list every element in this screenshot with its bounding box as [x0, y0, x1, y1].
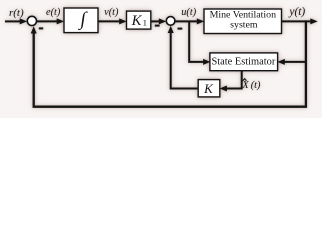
svg-text:system: system	[230, 20, 258, 31]
svg-text:v(t): v(t)	[104, 7, 119, 18]
svg-text:u(t): u(t)	[181, 7, 196, 18]
svg-text:K: K	[131, 13, 143, 29]
svg-text:r(t): r(t)	[9, 7, 24, 19]
svg-text:K: K	[203, 81, 214, 96]
svg-text:State Estimator: State Estimator	[212, 57, 276, 68]
svg-text:e(t): e(t)	[46, 7, 61, 18]
svg-text:(t): (t)	[251, 80, 261, 91]
svg-text:1: 1	[143, 17, 147, 27]
svg-text:y(t): y(t)	[288, 6, 305, 18]
svg-text:X: X	[241, 80, 249, 91]
